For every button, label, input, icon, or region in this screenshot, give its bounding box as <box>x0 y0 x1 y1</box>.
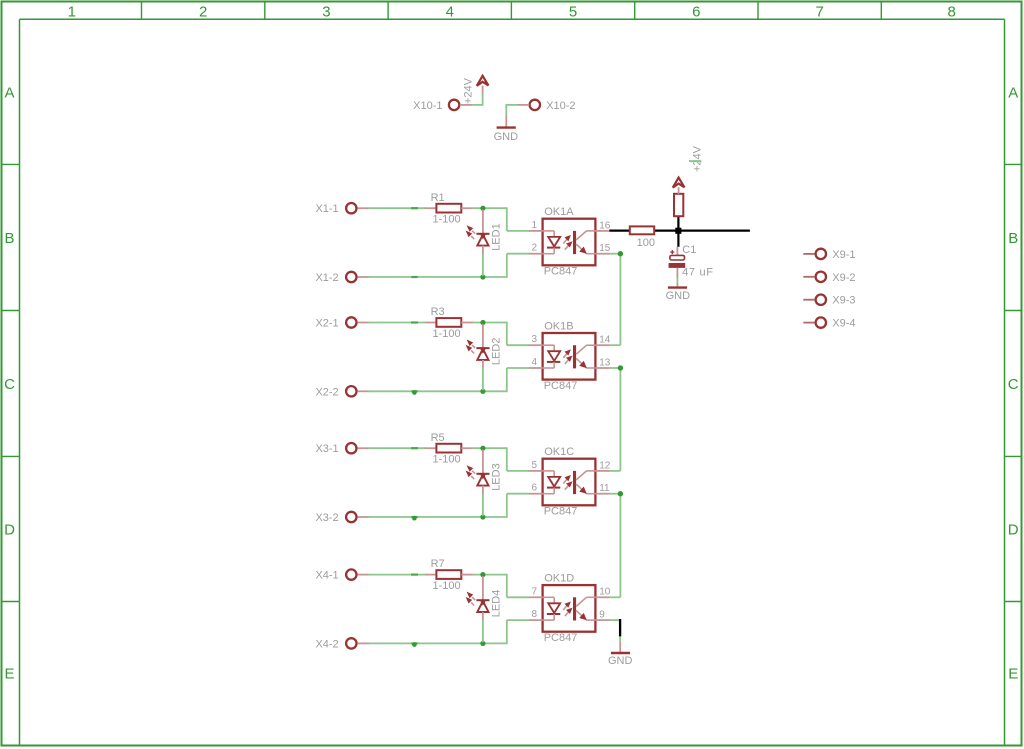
svg-text:LED4: LED4 <box>491 590 503 618</box>
svg-text:X9-4: X9-4 <box>832 318 855 330</box>
svg-text:C1: C1 <box>682 244 696 256</box>
svg-text:E: E <box>4 666 14 683</box>
svg-text:X9-3: X9-3 <box>832 295 855 307</box>
svg-text:X2-2: X2-2 <box>315 386 338 398</box>
svg-text:D: D <box>1008 521 1019 538</box>
svg-text:1-100: 1-100 <box>433 580 461 592</box>
svg-text:6: 6 <box>531 483 537 494</box>
svg-text:7: 7 <box>531 586 537 597</box>
svg-text:D: D <box>4 521 15 538</box>
svg-text:7: 7 <box>815 4 823 21</box>
svg-text:OK1D: OK1D <box>544 573 574 585</box>
svg-text:PC847: PC847 <box>544 632 578 644</box>
svg-text:E: E <box>1008 666 1018 683</box>
svg-text:OK1B: OK1B <box>544 320 573 332</box>
svg-text:B: B <box>1008 230 1018 247</box>
svg-text:1: 1 <box>531 220 537 231</box>
svg-text:PC847: PC847 <box>544 506 578 518</box>
svg-text:X1-1: X1-1 <box>315 203 338 215</box>
svg-text:X3-2: X3-2 <box>315 512 338 524</box>
svg-text:13: 13 <box>599 357 611 368</box>
svg-text:3: 3 <box>322 4 330 21</box>
svg-text:R3: R3 <box>431 306 445 318</box>
svg-text:1-100: 1-100 <box>433 328 461 340</box>
svg-text:X2-1: X2-1 <box>315 318 338 330</box>
svg-text:PC847: PC847 <box>544 380 578 392</box>
svg-text:PC847: PC847 <box>544 266 578 278</box>
svg-text:X10-1: X10-1 <box>413 100 442 112</box>
svg-text:11: 11 <box>599 483 610 494</box>
svg-text:X3-1: X3-1 <box>315 443 338 455</box>
svg-text:LED3: LED3 <box>491 463 503 491</box>
svg-text:OK1C: OK1C <box>544 446 574 458</box>
svg-text:2: 2 <box>531 243 537 254</box>
svg-text:R5: R5 <box>431 432 445 444</box>
svg-text:X9-1: X9-1 <box>832 249 855 261</box>
svg-text:X4-2: X4-2 <box>315 638 338 650</box>
svg-text:9: 9 <box>599 610 605 621</box>
svg-text:47 uF: 47 uF <box>682 266 714 278</box>
svg-text:1: 1 <box>68 4 76 21</box>
svg-text:8: 8 <box>531 609 537 620</box>
svg-text:A: A <box>1008 84 1018 101</box>
svg-text:+24V: +24V <box>692 145 704 172</box>
svg-text:10: 10 <box>599 587 611 598</box>
svg-text:R7: R7 <box>431 558 445 570</box>
svg-text:GND: GND <box>608 655 633 667</box>
svg-text:12: 12 <box>599 460 611 471</box>
svg-text:X10-2: X10-2 <box>546 100 575 112</box>
svg-text:OK1A: OK1A <box>544 206 574 218</box>
svg-text:C: C <box>1008 376 1019 393</box>
svg-text:1-100: 1-100 <box>433 214 461 226</box>
svg-text:2: 2 <box>199 4 207 21</box>
svg-text:15: 15 <box>599 243 611 254</box>
svg-text:4: 4 <box>446 4 454 21</box>
svg-text:16: 16 <box>599 220 611 231</box>
svg-text:LED1: LED1 <box>491 223 503 251</box>
svg-text:X4-1: X4-1 <box>315 570 338 582</box>
svg-text:GND: GND <box>666 290 691 302</box>
svg-text:5: 5 <box>569 4 577 21</box>
svg-text:X9-2: X9-2 <box>832 272 855 284</box>
svg-text:6: 6 <box>692 4 700 21</box>
svg-text:14: 14 <box>599 335 611 346</box>
svg-text:GND: GND <box>494 131 519 143</box>
svg-text:4: 4 <box>531 357 537 368</box>
svg-text:B: B <box>4 230 14 247</box>
svg-text:100: 100 <box>637 237 655 249</box>
svg-text:R1: R1 <box>431 192 445 204</box>
svg-text:C: C <box>4 376 15 393</box>
svg-text:5: 5 <box>531 460 537 471</box>
svg-text:X1-2: X1-2 <box>315 272 338 284</box>
svg-text:+24V: +24V <box>462 77 474 104</box>
svg-text:1-100: 1-100 <box>433 454 461 466</box>
svg-text:3: 3 <box>531 334 537 345</box>
svg-text:LED2: LED2 <box>491 338 503 366</box>
svg-text:8: 8 <box>947 4 955 21</box>
svg-text:A: A <box>4 84 14 101</box>
